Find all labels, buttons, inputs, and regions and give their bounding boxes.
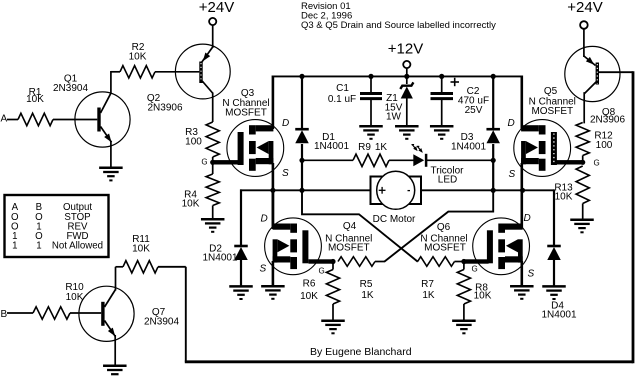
mosfet Q3 [227,120,284,177]
svg-text:1: 1 [12,241,17,252]
svg-text:10K: 10K [300,291,318,302]
node Q5 gate [580,160,585,165]
wire feedback bottom [185,360,633,363]
svg-text:LED: LED [438,175,457,186]
capacitor C2 [431,92,454,95]
ground R8 [452,319,476,322]
gate lead Q6 [464,259,489,263]
svg-text:2N3906: 2N3906 [590,115,625,126]
resistor R1 [18,113,53,125]
resistor R4 [206,174,219,206]
dc motor M1 [371,177,422,205]
wire Q6 source to ground [520,261,523,286]
svg-text:D: D [524,213,531,224]
wire Q3 drain up [272,76,275,130]
ground R4 [201,218,225,221]
wire Z1 to ground [406,99,408,127]
svg-text:S: S [509,169,516,180]
node rail C2 [439,74,444,79]
wire rail to C1 [370,76,372,92]
resistor R10 [33,307,70,319]
svg-text:2N3904: 2N3904 [53,83,88,94]
svg-text:1N4001: 1N4001 [202,253,237,264]
truth table [5,195,109,257]
wire Q7 collector to R11 [115,267,117,291]
svg-text:MOSFET: MOSFET [531,106,573,117]
resistor R5 [338,257,375,267]
node rail D1 [299,74,304,79]
svg-text:100: 100 [596,140,613,151]
svg-text:10K: 10K [26,94,44,105]
node D3 motor [491,188,496,193]
node Q5S motor [520,188,525,193]
wire +24V to Q8 emitter [583,29,585,57]
wire Q1 emitter [110,141,112,168]
wire Q4 drain [272,190,275,227]
wire gate node to R6 [332,262,334,270]
transistor Q7 [79,286,134,341]
diode D4 [547,245,561,248]
ground D4 [542,285,566,288]
diode D3 [486,128,500,131]
wire A to R1 [7,119,18,121]
node Q6 gate [461,259,466,264]
wire D1 to R9 [302,159,353,161]
node Q3S motor [270,188,275,193]
node D1 R9 [299,158,304,163]
wire rail to D3 [492,76,494,128]
wire feedback left vertical [185,267,187,362]
capacitor C1 [360,92,382,95]
wire B to R10 [7,312,33,314]
svg-text:10K: 10K [182,199,200,210]
wire Q3 source down [272,163,275,229]
wire +12V rail [272,75,523,77]
wire Q4 source to ground [272,261,275,286]
ground Q4 [261,285,285,288]
svg-text:By Eugene Blanchard: By Eugene Blanchard [310,346,412,358]
svg-text:1K: 1K [375,142,388,153]
node rail Z1 [404,74,409,79]
transistor Q2 [175,44,230,99]
svg-text:D: D [261,214,268,225]
svg-text:DC Motor: DC Motor [373,214,416,225]
svg-text:10K: 10K [66,292,84,303]
ground R13 [570,218,594,221]
wire motor rail right [421,189,523,191]
svg-text:S: S [282,168,289,179]
svg-text:R9: R9 [358,142,371,153]
wire Q2 collector to R3 [212,93,214,123]
wire R3 to gate node [212,157,214,162]
svg-text:R5: R5 [360,279,373,290]
node rail D3 [491,74,496,79]
wire R4 to ground [212,206,214,220]
resistor R8 [457,270,470,305]
wire Q6 drain [520,190,523,227]
wire Q5 drain up [520,76,523,130]
resistor R11 [123,261,158,273]
wire rail to Z1 [406,76,408,84]
resistor R3 [206,122,219,157]
svg-text:Q4: Q4 [343,221,357,232]
wire R11 to feedback corner [158,266,186,268]
wire R10 to Q7 base [70,312,101,314]
svg-text:+24V: +24V [567,0,602,16]
svg-text:D: D [508,118,515,129]
ground C1 [359,125,383,128]
ground R6 [321,319,345,322]
mosfet Q4 [265,218,322,275]
wire R9 to LED [389,159,414,161]
svg-text:G: G [472,265,478,274]
wire R6 to ground [332,304,334,321]
svg-text:1N4001: 1N4001 [541,310,576,321]
node rail C1 [368,74,373,79]
mosfet Q5 [514,120,571,177]
led tricolor [413,154,424,166]
wire +12V to rail [406,68,408,76]
svg-text:D: D [282,118,289,129]
svg-text:2N3904: 2N3904 [144,317,179,328]
svg-text:S: S [528,269,535,280]
ground Z1 [395,125,419,128]
capacitor C2 plus sign [451,81,460,83]
transistor Q1 [75,92,130,147]
svg-text:10K: 10K [474,291,492,302]
svg-text:25V: 25V [465,105,483,116]
wire right motor node to R5 [384,190,493,261]
svg-text:S: S [260,264,267,275]
svg-text:R7: R7 [421,279,434,290]
wire R5 right [375,261,385,263]
ground Q1 [99,167,123,170]
gate lead Q3 [213,160,240,164]
wire R12 to gate node [582,156,584,163]
wire Q5 source down [520,163,523,190]
wire Q8 base lead [599,71,633,73]
node D3 R9 [491,158,496,163]
zener Z1 [400,82,413,89]
svg-text:1: 1 [36,241,41,252]
power +24V left terminal [209,18,216,25]
wire R8 to ground [463,304,465,321]
wire motor node to D4 [522,189,554,191]
wire feedback right vertical [632,71,635,363]
gate lead Q4 [309,259,334,263]
svg-text:G: G [319,267,325,276]
svg-text:B: B [1,309,8,320]
wire motor rail left [272,189,371,191]
mosfet Q6 [473,218,530,275]
wire R13 to ground [582,204,584,220]
svg-text:Q3 & Q5 Drain and Source label: Q3 & Q5 Drain and Source labelled incorr… [301,20,496,31]
svg-text:G: G [201,158,207,167]
svg-text:A: A [1,114,8,125]
wire LED to D3 [427,159,493,161]
ground Q7 [103,365,127,368]
svg-text:1N4001: 1N4001 [451,142,486,153]
svg-text:MOSFET: MOSFET [424,243,466,254]
resistor R2 [120,66,155,78]
svg-text:1K: 1K [422,290,435,301]
node Q4 gate [330,259,335,264]
wire rail to C2 [441,76,443,92]
wire rail to D1 [301,76,303,128]
svg-text:R6: R6 [303,279,316,290]
wire C1 to ground [370,100,372,126]
svg-text:+12V: +12V [388,41,423,58]
node D1 motor [299,188,304,193]
power +12V terminal [403,61,410,68]
svg-text:0.1 uF: 0.1 uF [328,94,356,105]
gate lead Q5 [555,160,583,164]
svg-text:MOSFET: MOSFET [328,243,370,254]
wire Q8 collector to R12 [583,93,585,123]
wire D1 to motor node [301,144,303,190]
wire motor node to D2 [240,189,273,191]
power +24V right terminal [580,21,588,29]
wire left motor node to R7 [302,190,418,261]
wire D2 to ground [240,259,242,286]
resistor R6 [326,270,339,305]
wire Q1 collector [110,71,112,94]
resistor R13 [576,166,589,204]
svg-text:Not Allowed: Not Allowed [52,241,103,252]
node G Q3 junction [210,160,215,165]
svg-text:10K: 10K [555,192,573,203]
svg-text:C1: C1 [336,83,349,94]
svg-text:1N4001: 1N4001 [314,141,349,152]
svg-text:100: 100 [185,137,202,148]
wire D4 to ground [553,259,555,286]
svg-text:Q6: Q6 [437,222,451,233]
svg-text:G: G [594,159,600,168]
diode D1 [295,128,309,131]
wire Q7 emitter [114,335,116,366]
wire D3 to motor node [492,144,494,190]
resistor R7 [418,257,455,267]
resistor R12 [576,123,589,156]
wire C2 to ground [441,100,443,126]
svg-text:1K: 1K [361,290,374,301]
svg-text:10K: 10K [132,244,150,255]
resistor R9 [353,154,389,166]
diode D2 [234,245,248,248]
transistor Q8 [565,46,620,101]
svg-text:1W: 1W [386,112,402,123]
ground C2 [430,125,454,128]
svg-text:2N3906: 2N3906 [147,103,182,114]
wire gate node to R8 [463,262,465,270]
wire R1 to Q1 base [53,119,97,121]
svg-text:Q5: Q5 [544,86,558,97]
wire +24V to Q2 emitter [212,25,214,48]
wire R2 to Q2 base [155,71,199,73]
ground D2 [229,285,253,288]
wire gate node to R4 [212,162,214,174]
svg-text:+24V: +24V [199,0,234,16]
svg-text:10K: 10K [129,52,147,63]
ground Q6 [510,285,534,288]
wire R7 right [455,261,464,263]
svg-text:MOSFET: MOSFET [225,108,267,119]
